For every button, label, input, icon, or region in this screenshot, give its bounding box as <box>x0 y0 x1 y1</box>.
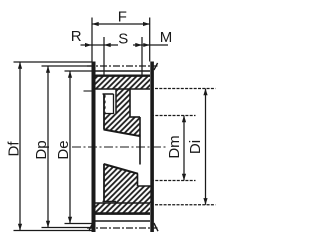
svg-text:De: De <box>55 140 72 159</box>
svg-text:Dm: Dm <box>166 135 183 158</box>
svg-text:Di: Di <box>187 140 204 154</box>
svg-text:Dp: Dp <box>33 140 50 159</box>
svg-text:S: S <box>118 31 128 48</box>
svg-text:R: R <box>71 28 82 45</box>
svg-text:F: F <box>118 9 127 26</box>
svg-text:M: M <box>160 29 173 46</box>
svg-text:Df: Df <box>5 141 22 157</box>
